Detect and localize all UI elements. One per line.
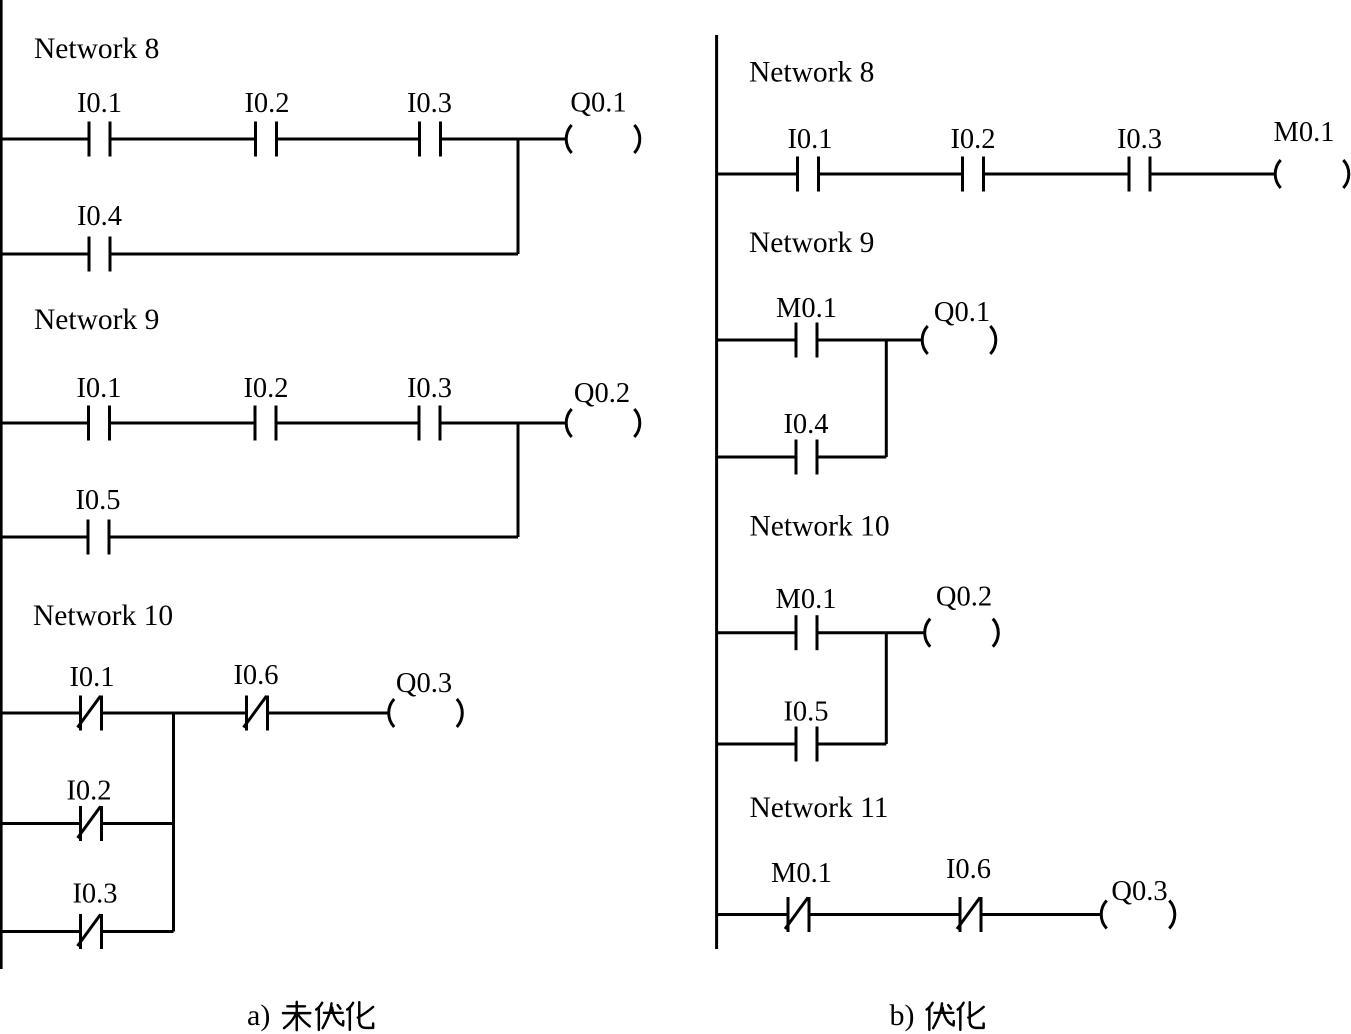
wire rail to I0.1 bbox=[0, 712, 81, 715]
contact I0.1 (NO) bbox=[89, 122, 110, 157]
svg-text:Q0.2: Q0.2 bbox=[574, 378, 630, 409]
wire rail to I0.5 bbox=[0, 536, 88, 539]
caption b) glyph 优 bbox=[927, 1003, 954, 1030]
wire I0.1 to I0.2 bbox=[819, 173, 963, 176]
svg-text:I0.5: I0.5 bbox=[783, 697, 828, 728]
wire I0.1 to I0.2 bbox=[110, 422, 256, 425]
wire I0.3 to branch junction bbox=[102, 930, 174, 933]
svg-text:I0.1: I0.1 bbox=[69, 662, 114, 693]
wire rail to I0.1 bbox=[0, 138, 89, 141]
coil Q0.1 bbox=[922, 326, 996, 354]
svg-text:Network 8: Network 8 bbox=[749, 57, 874, 89]
wire rail to M0.1 bbox=[717, 913, 788, 916]
wire I0.3 to coil M0.1 bbox=[1150, 173, 1274, 176]
svg-text:b): b) bbox=[890, 999, 915, 1032]
wire rail to I0.4 bbox=[717, 456, 796, 459]
contact I0.6 (NC) bbox=[244, 696, 268, 731]
wire rail to I0.4 bbox=[0, 253, 89, 256]
svg-text:Q0.1: Q0.1 bbox=[934, 297, 990, 328]
wire rail to M0.1 bbox=[717, 631, 796, 634]
wire I0.5 to branch junction bbox=[817, 743, 886, 746]
wire I0.2 to I0.3 bbox=[276, 422, 419, 425]
wire I0.4 to branch junction bbox=[817, 456, 886, 459]
branch wire down from rung 1 bbox=[517, 423, 520, 537]
svg-text:Q0.3: Q0.3 bbox=[396, 668, 452, 699]
svg-text:I0.2: I0.2 bbox=[243, 373, 288, 404]
svg-text:I0.1: I0.1 bbox=[77, 88, 122, 119]
branch wire down from rung 1 bbox=[885, 633, 888, 744]
wire I0.6 to coil Q0.3 bbox=[981, 913, 1100, 916]
wire M0.1 to I0.6 bbox=[809, 913, 960, 916]
coil Q0.3 bbox=[1101, 901, 1175, 929]
wire rail to I0.2 bbox=[0, 822, 81, 825]
contact I0.3 (NO) bbox=[1129, 157, 1150, 192]
contact I0.2 (NO) bbox=[963, 157, 984, 192]
wire I0.1 to I0.6 bbox=[102, 712, 247, 715]
svg-text:M0.1: M0.1 bbox=[771, 858, 832, 889]
svg-text:Network 11: Network 11 bbox=[750, 792, 889, 824]
coil Q0.3 bbox=[389, 699, 463, 727]
contact M0.1 (NO) bbox=[796, 323, 817, 358]
contact I0.2 (NO) bbox=[256, 122, 277, 157]
contact I0.4 (NO) bbox=[796, 440, 817, 475]
coil M0.1 bbox=[1275, 160, 1349, 188]
coil Q0.2 bbox=[925, 619, 999, 647]
contact M0.1 (NO) bbox=[796, 615, 817, 650]
svg-text:I0.2: I0.2 bbox=[244, 88, 289, 119]
wire I0.6 to coil Q0.3 bbox=[268, 712, 389, 715]
contact I0.1 (NO) bbox=[798, 157, 819, 192]
wire M0.1 to coil Q0.2 bbox=[817, 631, 924, 634]
wire I0.2 to I0.3 bbox=[984, 173, 1130, 176]
contact I0.3 (NO) bbox=[420, 122, 441, 157]
wire I0.2 to I0.3 bbox=[277, 138, 420, 141]
wire rail to M0.1 bbox=[717, 339, 796, 342]
contact I0.6 (NC) bbox=[957, 897, 981, 932]
caption a) glyph 优 bbox=[316, 1003, 343, 1030]
svg-text:I0.1: I0.1 bbox=[787, 124, 832, 155]
svg-text:Network 8: Network 8 bbox=[34, 33, 159, 65]
contact M0.1 (NC) bbox=[785, 897, 809, 932]
svg-text:I0.3: I0.3 bbox=[407, 88, 452, 119]
contact I0.2 (NC) bbox=[78, 806, 102, 841]
branch wire down from rung 1 bbox=[172, 713, 175, 932]
left power rail bbox=[0, 0, 3, 969]
wire rail to I0.5 bbox=[717, 743, 796, 746]
svg-text:Q0.2: Q0.2 bbox=[936, 582, 992, 613]
contact I0.1 (NC) bbox=[78, 696, 102, 731]
contact I0.4 (NO) bbox=[89, 237, 110, 272]
wire I0.3 to coil Q0.1 bbox=[441, 138, 566, 141]
wire rail to I0.3 bbox=[0, 930, 81, 933]
svg-text:Network 9: Network 9 bbox=[34, 304, 159, 336]
svg-text:M0.1: M0.1 bbox=[776, 584, 837, 615]
contact I0.1 (NO) bbox=[89, 406, 110, 441]
branch wire down from rung 1 bbox=[517, 139, 520, 254]
svg-text:I0.6: I0.6 bbox=[233, 660, 278, 691]
svg-text:I0.1: I0.1 bbox=[76, 373, 121, 404]
branch wire down from rung 1 bbox=[885, 340, 888, 457]
contact I0.5 (NO) bbox=[796, 727, 817, 762]
svg-text:Network 10: Network 10 bbox=[33, 600, 173, 632]
wire I0.1 to I0.2 bbox=[110, 138, 256, 141]
coil Q0.2 bbox=[566, 409, 640, 437]
svg-text:Q0.3: Q0.3 bbox=[1111, 876, 1167, 907]
wire I0.3 to coil Q0.2 bbox=[440, 422, 565, 425]
caption a) glyph 化 bbox=[347, 1002, 373, 1030]
svg-text:I0.3: I0.3 bbox=[407, 373, 452, 404]
wire I0.5 to branch junction bbox=[109, 536, 518, 539]
wire I0.2 to branch junction bbox=[102, 822, 174, 825]
svg-text:I0.5: I0.5 bbox=[75, 485, 120, 516]
wire M0.1 to coil Q0.1 bbox=[817, 339, 921, 342]
contact I0.3 (NC) bbox=[78, 914, 102, 949]
wire I0.4 to branch junction bbox=[110, 253, 518, 256]
svg-text:I0.3: I0.3 bbox=[1117, 124, 1162, 155]
svg-text:I0.2: I0.2 bbox=[950, 124, 995, 155]
contact I0.2 (NO) bbox=[255, 406, 276, 441]
wire rail to I0.1 bbox=[717, 173, 798, 176]
svg-text:Network 10: Network 10 bbox=[750, 511, 890, 543]
caption b) glyph 化 bbox=[958, 1002, 984, 1030]
svg-text:I0.3: I0.3 bbox=[72, 879, 117, 910]
svg-text:M0.1: M0.1 bbox=[1274, 117, 1335, 148]
coil Q0.1 bbox=[566, 125, 640, 153]
svg-text:M0.1: M0.1 bbox=[776, 293, 837, 324]
svg-text:a): a) bbox=[247, 999, 270, 1032]
right power rail bbox=[715, 35, 718, 949]
svg-text:Network 9: Network 9 bbox=[749, 227, 874, 259]
svg-text:I0.6: I0.6 bbox=[946, 854, 991, 885]
svg-text:I0.2: I0.2 bbox=[66, 776, 111, 807]
svg-text:I0.4: I0.4 bbox=[77, 201, 122, 232]
svg-text:I0.4: I0.4 bbox=[783, 409, 828, 440]
wire rail to I0.1 bbox=[0, 422, 89, 425]
contact I0.5 (NO) bbox=[88, 520, 109, 555]
caption a) glyph 未 bbox=[283, 1002, 310, 1030]
contact I0.3 (NO) bbox=[419, 406, 440, 441]
svg-text:Q0.1: Q0.1 bbox=[570, 88, 626, 119]
